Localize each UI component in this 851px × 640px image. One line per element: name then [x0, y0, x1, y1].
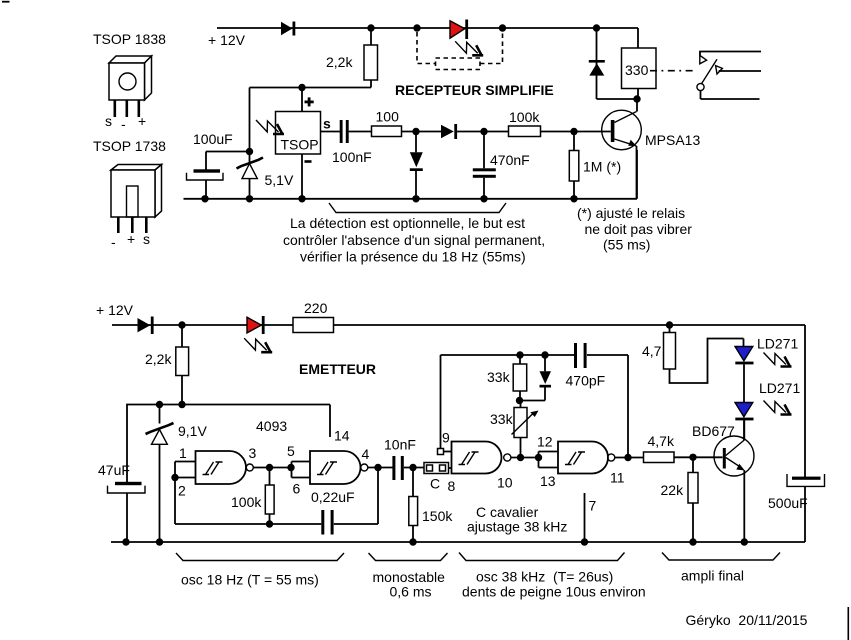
TSOP - pin mark [305, 160, 312, 163]
resistor R 33k (adjustable) [512, 401, 539, 458]
svg-text:33k: 33k [490, 411, 514, 427]
svg-text:+ 12V: + 12V [208, 32, 246, 48]
svg-text:EMETTEUR: EMETTEUR [299, 361, 376, 377]
wire 2,2k bottom to TSOP + [250, 88, 372, 112]
wire down to 100uF node [249, 88, 251, 152]
relay contact top line [700, 52, 761, 56]
wire Vdd sub-rail [127, 405, 330, 483]
diode D3 (to ground) [410, 132, 423, 199]
wire coil bottom [597, 89, 639, 112]
node junction 100k top [266, 464, 273, 471]
wire +12V top rail (receiver) [217, 27, 638, 29]
resistor R 4,7k [644, 452, 675, 463]
diode D4 (series signal) [441, 124, 509, 139]
resistor R 22k [688, 457, 698, 542]
node junction 33k bottom [517, 454, 524, 461]
transistor Q2 BD677 [714, 420, 754, 543]
node junction 100k bottom [266, 520, 273, 527]
svg-text:14: 14 [334, 428, 350, 444]
svg-text:2,2k: 2,2k [326, 54, 353, 70]
node junction dashed left [413, 24, 420, 31]
wire osc38 feedback top [441, 355, 629, 458]
gate U2D 4093 (osc 38kHz out) [558, 442, 615, 474]
wire 100uF branch [206, 152, 250, 199]
TSOP IR receive arrows [256, 120, 284, 134]
svg-text:s: s [143, 231, 150, 247]
relay contact middle line [719, 70, 762, 72]
svg-text:vérifier la présence du 18 Hz: vérifier la présence du 18 Hz (55ms) [300, 249, 526, 265]
LED D2 red (receiver indicator) [450, 20, 468, 40]
transistor Q1 MPSA13 [602, 110, 642, 199]
resistor 2,2k (receiver) [364, 28, 378, 88]
dashed optional box [436, 58, 481, 70]
node junction between 33k [516, 397, 523, 404]
svg-text:150k: 150k [422, 508, 453, 524]
svg-text:2,2k: 2,2k [145, 351, 172, 367]
wire flyback branch [596, 28, 598, 99]
svg-text:(*) ajusté le relais: (*) ajusté le relais [577, 205, 685, 221]
svg-text:LD271: LD271 [757, 336, 798, 352]
brace label monostable [373, 569, 446, 600]
TSOP receiver box U1 [276, 112, 321, 155]
node junction 150k top [409, 464, 416, 471]
gate U2A 4093 (osc 18Hz) [196, 451, 254, 484]
node junction 22k top [689, 454, 696, 461]
svg-text:ajustage 38 kHz: ajustage 38 kHz [467, 519, 567, 535]
wire gate2 inputs tied [292, 462, 311, 478]
resistor R 100k (receiver) [509, 126, 541, 137]
svg-text:4,7: 4,7 [642, 343, 662, 359]
resistor R 220 [293, 318, 334, 333]
LD271 bottom emission arrows [764, 401, 792, 415]
node junction gate2 input [287, 464, 294, 471]
wire receiver ground rail [184, 150, 638, 199]
svg-text:ne doit pas vibrer: ne doit pas vibrer [585, 221, 693, 237]
wire emitter ground rail [111, 541, 805, 543]
svg-text:6: 6 [293, 481, 301, 497]
svg-text:1: 1 [179, 445, 187, 461]
node junction dashed right [499, 24, 506, 31]
svg-text:-: - [111, 234, 116, 250]
svg-text:330: 330 [625, 62, 649, 78]
svg-text:5,1V: 5,1V [265, 172, 294, 188]
svg-text:470pF: 470pF [566, 373, 606, 389]
svg-text:osc 18 Hz (T = 55 ms): osc 18 Hz (T = 55 ms) [181, 572, 319, 588]
svg-text:+ 12V: + 12V [96, 302, 134, 318]
svg-text:22k: 22k [661, 482, 685, 498]
wire TSOP s out [321, 131, 341, 133]
svg-text:10nF: 10nF [384, 437, 416, 453]
node junction TSOP + [298, 84, 305, 91]
node junction coil/collector [633, 95, 640, 102]
svg-text:LD271: LD271 [759, 380, 800, 396]
svg-text:100k: 100k [231, 494, 262, 510]
LD271 top emission arrows [764, 353, 792, 367]
svg-text:100k: 100k [509, 109, 540, 125]
wire gate3 output [511, 457, 539, 459]
wire after R100 [402, 131, 442, 133]
note text relay adjust [577, 205, 692, 253]
svg-text:2: 2 [178, 483, 186, 499]
relay lever [701, 59, 717, 84]
svg-text:+: + [127, 231, 135, 247]
wire 100k to base [541, 131, 611, 133]
wire gate2 output [368, 467, 393, 469]
svg-text:5: 5 [287, 443, 295, 459]
capacitor C1 100uF (polarized) [187, 169, 224, 180]
wire gate4 output [615, 457, 644, 459]
wire 33k junction row [519, 400, 545, 402]
wire TSOP - to ground [301, 154, 303, 199]
capacitor C6 10nF [392, 456, 424, 480]
relay contact arrow middle [716, 66, 723, 74]
svg-text:0,6 ms: 0,6 ms [390, 584, 432, 600]
zener D10 9,1V [146, 405, 174, 543]
resistor R 100k (osc 18Hz) [265, 468, 274, 525]
node junction zener top [246, 148, 253, 155]
svg-text:3: 3 [249, 445, 257, 461]
svg-text:33k: 33k [487, 369, 511, 385]
wire +12V rail (emitter) [112, 325, 805, 477]
node junction 2,2k bottom [178, 401, 185, 408]
svg-text:4,7k: 4,7k [648, 433, 675, 449]
TSOP 1738 legs [117, 217, 148, 233]
svg-text:-: - [121, 116, 126, 132]
diode D8 flyback (points up) [589, 60, 605, 76]
svg-text:10: 10 [497, 475, 513, 491]
diode D1 (series +12V receiver) [281, 22, 295, 36]
relay coil 330 [622, 48, 657, 89]
TSOP 1738 package [111, 165, 162, 218]
resistor R 4,7 [664, 325, 744, 383]
node junctions on receiver ground [201, 195, 577, 202]
capacitor C2 100nF [340, 120, 372, 143]
TSOP 1838 legs [114, 100, 141, 117]
brace label osc 38 kHz [462, 569, 646, 600]
svg-text:100nF: 100nF [332, 149, 372, 165]
node junction gate4 input [535, 454, 542, 461]
svg-text:13: 13 [540, 473, 556, 489]
resistor R 1M [569, 132, 579, 199]
node junction diode top [541, 351, 548, 358]
node junction gate1 pin2 [171, 474, 178, 481]
resistor R 100 [372, 126, 402, 137]
svg-text:La détection est optionnelle,: La détection est optionnelle, le but est [290, 215, 525, 231]
resistor 2,2k (emitter) [176, 325, 189, 405]
relay contact arrow top [700, 55, 707, 64]
wire gate1 output [253, 467, 291, 469]
relay pivot circle [697, 83, 704, 90]
svg-text:12: 12 [537, 434, 553, 450]
svg-text:contrôler l'absence d'un signa: contrôler l'absence d'un signal permanen… [283, 232, 545, 248]
svg-text:500uF: 500uF [768, 495, 808, 511]
brace under receiver ground [329, 203, 506, 213]
dashed optional link right [480, 32, 503, 64]
node junction gate2 out [374, 464, 381, 471]
svg-text:47uF: 47uF [98, 462, 130, 478]
svg-text:100uF: 100uF [193, 131, 233, 147]
svg-text:osc 38 kHz (T= 26us): osc 38 kHz (T= 26us) [476, 569, 613, 585]
svg-text:100: 100 [376, 109, 400, 125]
svg-text:TSOP 1738: TSOP 1738 [93, 138, 166, 154]
node junction 470pF right [624, 454, 631, 461]
pin 9 connector square [438, 355, 452, 455]
node junction 2,2k top (emitter) [178, 321, 185, 328]
LED D11 LD271 (top) [735, 347, 754, 403]
svg-text:8: 8 [448, 478, 456, 494]
svg-text:TSOP: TSOP [281, 137, 319, 153]
resistor R 150k [409, 468, 418, 543]
brace osc 38 kHz [459, 553, 625, 561]
capacitor C4 47uF (polarized) [108, 482, 146, 542]
wire 4,7k to base [674, 456, 723, 458]
dashed optional link left [417, 32, 436, 64]
diode D7 (parallel 33k) [540, 355, 552, 401]
svg-text:MPSA13: MPSA13 [645, 132, 700, 148]
brace monostable [369, 553, 448, 561]
svg-text:9,1V: 9,1V [178, 423, 207, 439]
capacitor C7 470pF [574, 343, 587, 368]
svg-text:11: 11 [610, 470, 625, 486]
dash-dot link coil to contact [650, 70, 697, 72]
TSOP + pin mark [305, 97, 314, 106]
capacitor C5 0,22uF [321, 510, 333, 535]
svg-text:ampli final: ampli final [681, 568, 744, 584]
stray mark top-left [2, 1, 10, 3]
svg-text:+: + [138, 113, 146, 129]
resistor R 33k (fixed) [513, 355, 527, 401]
LED D2 emission arrows [455, 41, 483, 55]
wire gate1 inputs tied [175, 462, 196, 525]
gate U2B 4093 (monostable) [310, 451, 368, 484]
svg-text:RECEPTEUR SIMPLIFIE: RECEPTEUR SIMPLIFIE [395, 82, 554, 98]
relay common bottom line [701, 91, 760, 99]
zener D9 5,1V [237, 152, 264, 199]
brace ampli final [662, 553, 780, 561]
gate U2C 4093 (osc 38kHz) [452, 442, 511, 474]
node junction 1M top [570, 128, 577, 135]
capacitor C3 470nF [473, 132, 496, 199]
svg-text:4: 4 [362, 446, 370, 462]
LED D6 red (emitter indicator) [247, 316, 265, 334]
svg-text:9: 9 [442, 430, 450, 446]
diode D5 (series +12V emitter) [138, 317, 154, 335]
svg-text:4093: 4093 [256, 418, 287, 434]
node junctions on emitter ground [122, 538, 748, 545]
svg-text:BD677: BD677 [692, 423, 735, 439]
node junction relay branch [593, 24, 600, 31]
node junction 33k top [516, 351, 523, 358]
wire osc feedback bottom [175, 468, 378, 525]
svg-text:470nF: 470nF [490, 152, 530, 168]
LED D12 LD271 (bottom) [735, 403, 754, 441]
note text C cavalier [467, 504, 567, 535]
svg-text:s: s [105, 113, 112, 129]
svg-text:(55 ms): (55 ms) [603, 237, 650, 253]
svg-text:C: C [430, 476, 440, 492]
svg-text:Géryko 20/11/2015: Géryko 20/11/2015 [686, 612, 808, 628]
node junction 470nF top [480, 128, 487, 135]
svg-text:s: s [323, 116, 331, 132]
node junction zener 9,1V top [156, 401, 163, 408]
stray mark bottom-right [848, 607, 850, 640]
jumper C (cavalier) [424, 463, 449, 474]
svg-text:1M (*): 1M (*) [583, 159, 621, 175]
wire jumper to pin 8 [449, 467, 452, 469]
node junction diode down [412, 128, 419, 135]
svg-text:dents de peigne 10us environ: dents de peigne 10us environ [462, 584, 646, 600]
node junction 4,7 top [666, 321, 673, 328]
svg-text:7: 7 [589, 498, 597, 514]
pin 7 ground stub [584, 493, 586, 542]
wire gate4 inputs tied [539, 452, 559, 468]
node junction 2,2k top [367, 24, 374, 31]
wire top rail corner into coil [637, 28, 639, 48]
capacitor C8 500uF (polarized) [787, 474, 825, 542]
svg-text:TSOP 1838: TSOP 1838 [93, 31, 166, 47]
note text detection [283, 215, 545, 265]
TSOP 1838 package [109, 56, 152, 100]
LED D6 emission arrows [244, 338, 272, 352]
svg-text:220: 220 [304, 300, 328, 316]
svg-text:0,22uF: 0,22uF [311, 489, 355, 505]
brace osc 18 Hz [176, 553, 344, 561]
